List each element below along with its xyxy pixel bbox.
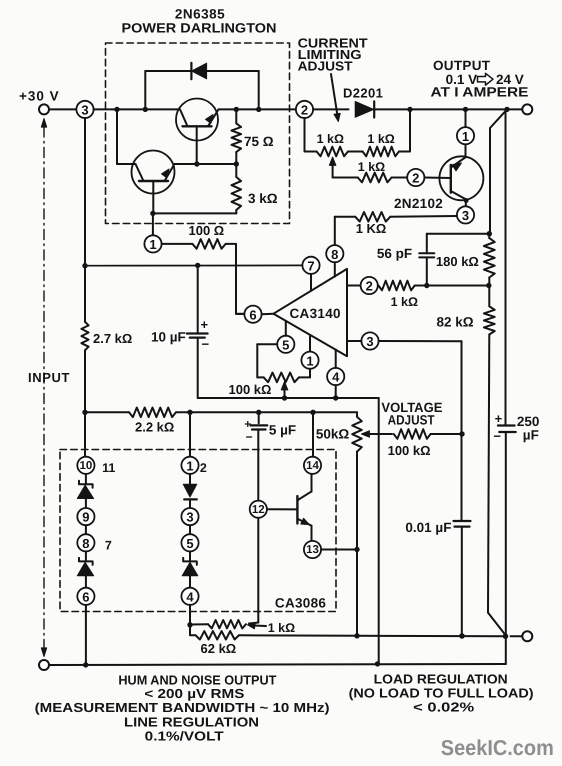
svg-text:CA3086: CA3086: [275, 596, 327, 611]
svg-text:1: 1: [186, 458, 193, 473]
svg-text:3: 3: [186, 510, 193, 525]
svg-text:1 kΩ: 1 kΩ: [268, 621, 295, 635]
svg-text:3: 3: [81, 103, 88, 118]
svg-text:1: 1: [149, 237, 156, 252]
svg-text:4: 4: [186, 589, 194, 604]
svg-text:2.7 kΩ: 2.7 kΩ: [93, 331, 132, 346]
svg-text:10: 10: [80, 460, 93, 472]
svg-text:OUTPUT: OUTPUT: [433, 58, 491, 73]
svg-text:+: +: [495, 411, 503, 426]
svg-text:3 kΩ: 3 kΩ: [248, 191, 278, 206]
svg-text:3: 3: [366, 334, 373, 349]
svg-text:0.1%/VOLT: 0.1%/VOLT: [145, 729, 224, 744]
svg-text:CA3140: CA3140: [290, 306, 341, 321]
svg-text:13: 13: [306, 544, 319, 556]
svg-text:82 kΩ: 82 kΩ: [437, 315, 474, 330]
svg-text:1: 1: [306, 353, 313, 368]
svg-text:1 kΩ: 1 kΩ: [391, 295, 418, 309]
svg-text:62 kΩ: 62 kΩ: [201, 641, 237, 656]
svg-text:2: 2: [301, 103, 308, 118]
svg-text:+: +: [244, 417, 251, 431]
svg-text:9: 9: [82, 510, 89, 525]
svg-text:5: 5: [282, 337, 289, 352]
svg-text:1 kΩ: 1 kΩ: [358, 160, 385, 174]
svg-text:+30 V: +30 V: [19, 89, 60, 104]
svg-text:ADJUST: ADJUST: [388, 413, 436, 428]
svg-text:D2201: D2201: [343, 86, 383, 101]
svg-text:50kΩ: 50kΩ: [316, 427, 350, 442]
svg-text:2N2102: 2N2102: [394, 196, 443, 211]
svg-text:7: 7: [307, 258, 314, 273]
svg-text:75 Ω: 75 Ω: [244, 134, 274, 149]
svg-text:< 0.02%: < 0.02%: [413, 700, 475, 715]
svg-text:3: 3: [462, 208, 469, 223]
svg-text:5 µF: 5 µF: [269, 423, 296, 438]
svg-text:ADJUST: ADJUST: [298, 58, 353, 73]
svg-text:AT I AMPERE: AT I AMPERE: [431, 85, 529, 100]
svg-text:2.2 kΩ: 2.2 kΩ: [135, 420, 174, 435]
svg-text:6: 6: [82, 589, 89, 604]
svg-text:4: 4: [332, 370, 340, 385]
svg-text:(NO LOAD TO FULL LOAD): (NO LOAD TO FULL LOAD): [349, 686, 534, 701]
svg-text:1 KΩ: 1 KΩ: [356, 221, 387, 236]
svg-text:−: −: [202, 337, 210, 352]
svg-text:11: 11: [102, 461, 115, 475]
svg-text:6: 6: [249, 307, 256, 322]
svg-text:7: 7: [105, 539, 112, 553]
svg-text:56 pF: 56 pF: [377, 246, 412, 261]
svg-text:2: 2: [366, 279, 373, 294]
svg-text:+: +: [201, 317, 209, 332]
svg-text:1 kΩ: 1 kΩ: [317, 132, 344, 146]
svg-text:0.01 µF: 0.01 µF: [405, 520, 451, 535]
svg-text:8: 8: [82, 536, 89, 551]
svg-text:100 kΩ: 100 kΩ: [229, 382, 272, 397]
svg-text:1 kΩ: 1 kΩ: [367, 132, 394, 146]
svg-text:10 µF: 10 µF: [151, 330, 186, 345]
svg-text:POWER DARLINGTON: POWER DARLINGTON: [122, 21, 277, 36]
svg-text:100 kΩ: 100 kΩ: [388, 443, 431, 458]
svg-text:2: 2: [412, 171, 419, 186]
svg-text:100 Ω: 100 Ω: [189, 223, 225, 238]
svg-text:−: −: [493, 429, 501, 444]
svg-text:5: 5: [186, 536, 193, 551]
svg-text:180 kΩ: 180 kΩ: [436, 254, 479, 269]
svg-text:(MEASUREMENT BANDWIDTH ~ 10 MH: (MEASUREMENT BANDWIDTH ~ 10 MHz): [35, 700, 330, 715]
svg-text:< 200 µV RMS: < 200 µV RMS: [144, 686, 244, 701]
svg-text:SeekIC.com: SeekIC.com: [441, 736, 554, 760]
svg-text:1: 1: [462, 129, 469, 144]
svg-text:12: 12: [252, 504, 265, 516]
svg-text:8: 8: [331, 247, 338, 262]
svg-text:INPUT: INPUT: [28, 370, 70, 385]
svg-text:14: 14: [306, 460, 319, 472]
svg-text:2: 2: [200, 461, 207, 475]
svg-text:µF: µF: [523, 428, 539, 443]
svg-text:2N6385: 2N6385: [175, 7, 225, 22]
svg-text:LOAD REGULATION: LOAD REGULATION: [374, 672, 508, 687]
svg-text:−: −: [246, 430, 253, 444]
svg-text:LINE REGULATION: LINE REGULATION: [124, 715, 259, 730]
